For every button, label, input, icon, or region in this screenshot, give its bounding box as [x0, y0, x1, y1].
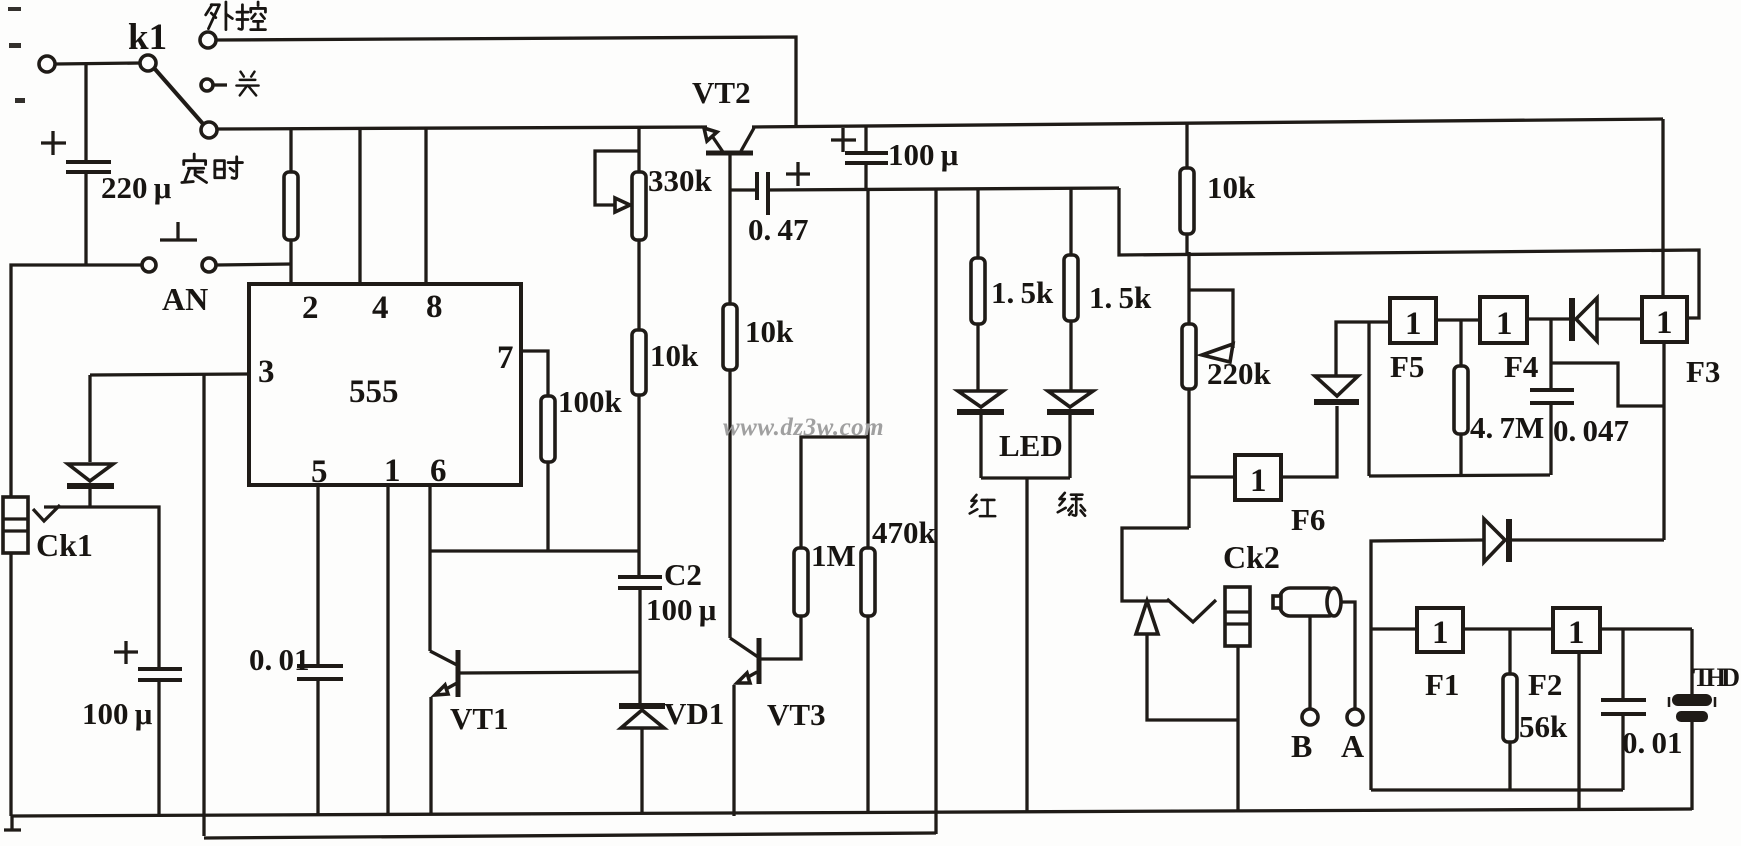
transistor VT2 emitter with arrow [708, 130, 723, 152]
svg-text:C2: C2 [664, 557, 702, 592]
diode F4-F3 bar [1569, 298, 1575, 341]
resistor 56k body [1503, 674, 1517, 742]
wire 470k bottom to bus1 [866, 616, 869, 812]
svg-text:VD1: VD1 [664, 696, 724, 731]
wire: AN left to left rail [11, 265, 142, 497]
box F1 [1417, 608, 1463, 652]
svg-text:6: 6 [430, 453, 447, 489]
svg-text:8: 8 [426, 289, 443, 325]
transistor VT1 emitter with arrow [437, 683, 457, 694]
capacitor 100u (left) plus [114, 641, 138, 664]
capacitor 100u (top) [845, 151, 888, 155]
wire 470k vertical from rail [866, 189, 869, 548]
node: guan (off) terminal [201, 79, 213, 91]
transistor VT3 bar [757, 638, 762, 684]
svg-text:1: 1 [1405, 306, 1422, 342]
svg-text:1: 1 [1432, 615, 1449, 651]
wire pin2 [289, 240, 292, 284]
resistor 10k (right) top wire [1185, 122, 1188, 168]
resistor 100k body [541, 396, 555, 462]
svg-text:100 μ: 100 μ [888, 137, 959, 172]
svg-text:1: 1 [1568, 615, 1585, 651]
wire bottom bracket (4.7M / 0.047) [1369, 475, 1550, 476]
wire pin3 to left diode [90, 374, 249, 375]
plus sign 0.47 [786, 162, 810, 186]
wire diode top to F5 line [1336, 322, 1390, 376]
svg-text:LED: LED [999, 428, 1063, 463]
wire: VT2 collector rail to F3 [752, 119, 1663, 127]
transistor VT3 collector diagonal [730, 638, 758, 657]
label dingshi (timing) [182, 154, 207, 183]
wire junction down to bottom bracket [1367, 322, 1370, 476]
resistor at pin2 (timing) top wire [289, 128, 292, 172]
resistor 10k (VT2 base) body [723, 304, 737, 370]
wire to bottom diode [1511, 538, 1664, 541]
node B terminal [1302, 709, 1318, 725]
wire C2 to VD1 [638, 588, 641, 704]
resistor 1.5k (green) top jog [1069, 188, 1072, 255]
wire VT2 base down [728, 153, 731, 304]
svg-text:1: 1 [384, 453, 401, 489]
wire pin7 stub [521, 351, 548, 396]
svg-text:5: 5 [311, 454, 328, 490]
wire 100k bottom [546, 462, 549, 551]
potentiometer 330k body [632, 172, 646, 240]
svg-text:VT3: VT3 [767, 697, 826, 732]
capacitor 0.47 [755, 172, 759, 200]
wire F1 top [1371, 627, 1417, 630]
capacitor 100u (top) plus [831, 128, 856, 152]
resistor 10k (right) body [1180, 168, 1194, 234]
svg-text:F1: F1 [1425, 667, 1459, 702]
diode VD (points down) [68, 464, 113, 481]
wire: AN right to pin2 resistor [216, 264, 292, 265]
wire: long vertical to bus2 [934, 189, 937, 834]
wire F4 to diode [1527, 317, 1571, 320]
jack Ck2 body [1225, 587, 1250, 646]
pushbutton AN symbol [160, 222, 197, 240]
capacitor 0.01 at pin5 [297, 664, 343, 668]
svg-text:0. 047: 0. 047 [1553, 413, 1629, 448]
wire: pin6 node to C2 top node [430, 549, 640, 552]
capacitor 100u (left) [138, 667, 182, 671]
svg-text:Ck1: Ck1 [36, 527, 93, 563]
diode above F6 (points down) [1315, 376, 1358, 396]
switch k1 pivot [140, 55, 156, 71]
svg-text:470k: 470k [872, 515, 937, 550]
wire 4.7M bottom [1459, 434, 1462, 476]
node A terminal [1347, 709, 1363, 725]
capacitor 0.01 (right) top wire [1621, 629, 1624, 700]
svg-text:B: B [1291, 728, 1312, 764]
transistor VT2 collector diagonal [741, 128, 754, 151]
wire: main rail from switch to VT2 emitter [217, 127, 707, 129]
transistor VT2 bar [706, 151, 753, 156]
switch k1: left terminal [39, 56, 55, 72]
capacitor 0.01 (right) [1601, 698, 1646, 702]
box F2 [1553, 608, 1600, 652]
resistor 1.5k (red) body [971, 258, 985, 324]
jack Ck1 body [3, 497, 28, 553]
wire LED bracket [981, 476, 1070, 479]
wire B lead [1308, 616, 1311, 709]
svg-text:1: 1 [1250, 463, 1267, 499]
svg-text:220k: 220k [1207, 356, 1272, 391]
wire plug down [1147, 634, 1238, 720]
capacitor 0.47 left lead [730, 188, 757, 191]
svg-text:100k: 100k [558, 384, 623, 419]
potentiometer 330k top wire [637, 127, 640, 172]
wire F5-F4 [1436, 318, 1480, 321]
wire: pin3 junction down to lower bus2 [202, 374, 205, 836]
svg-text:A: A [1341, 728, 1364, 764]
box F4 [1480, 297, 1527, 343]
wire diode to F1 block left edge [1371, 540, 1484, 790]
wire 10k bottom to rail255 [1185, 234, 1188, 253]
resistor 4.7M top wire [1459, 320, 1462, 366]
resistor 470k body [861, 548, 875, 616]
diode VD at pin3 top lead [88, 375, 91, 462]
transistor VT1 base wire [460, 672, 641, 673]
svg-text:56k: 56k [1519, 709, 1568, 744]
wire 220k bottom to F6 line [1187, 389, 1190, 528]
plug arrow (points up) [1136, 601, 1158, 634]
wire F3 bottom down [1662, 342, 1665, 540]
wire: Ck1 down to bus1 [9, 553, 12, 816]
jack Ck2 spring contact [1167, 599, 1216, 622]
svg-text:330k: 330k [648, 163, 713, 198]
buzzer THD [1672, 694, 1712, 706]
wire: junction down to 220u [84, 64, 87, 161]
wire F6 right to diode [1281, 406, 1337, 477]
potentiometer 220k body [1182, 324, 1196, 389]
wire diode to F3 [1597, 317, 1642, 320]
LED green (points down) [1048, 391, 1093, 407]
svg-text:4: 4 [372, 290, 389, 326]
capacitor 0.047 [1530, 388, 1574, 392]
transistor VT1 collector diagonal [430, 651, 457, 665]
wire pin8 [424, 128, 427, 284]
svg-text:555: 555 [349, 374, 399, 410]
wire to green LED [1069, 321, 1072, 390]
svg-text:10k: 10k [650, 338, 699, 373]
svg-text:2: 2 [302, 290, 319, 326]
pushbutton AN left contact [142, 258, 156, 272]
label waikong (external control) [206, 2, 233, 30]
wire pin4 [358, 128, 361, 284]
resistor 1.5k (red) top wire [976, 189, 979, 258]
wire 100u top [864, 125, 867, 153]
svg-text:0. 01: 0. 01 [1622, 725, 1682, 760]
wire rail jog down to y255 rail [1119, 188, 1699, 318]
diode (F1 feed, points right) [1484, 519, 1505, 562]
svg-text:10k: 10k [1207, 170, 1256, 205]
switch k1 lower contact [201, 122, 217, 138]
svg-text:1: 1 [1656, 305, 1673, 341]
wire 10k to VT3 collector [728, 370, 731, 638]
diode VD1 (points up) [621, 710, 664, 728]
bus1 ground rail [11, 809, 1692, 816]
wire F3 top from rail [1661, 119, 1664, 297]
resistor 4.7M body [1454, 366, 1468, 434]
wire Ck2 tip path [1122, 528, 1189, 601]
svg-text:0. 47: 0. 47 [748, 212, 808, 247]
wire pin5 [316, 485, 319, 666]
wire 1M top [801, 437, 868, 548]
diode F4-F3 (points left) [1576, 298, 1597, 341]
svg-text:100 μ: 100 μ [82, 696, 153, 731]
resistor 10k (under 330k) body [632, 330, 646, 395]
svg-text:www.dz3w.com: www.dz3w.com [723, 414, 884, 441]
wire 56k bottom [1508, 742, 1511, 790]
svg-text:0. 01: 0. 01 [249, 642, 309, 677]
box F6 [1235, 455, 1281, 500]
svg-text:4. 7M: 4. 7M [1470, 410, 1544, 445]
LED red (points down) [958, 391, 1003, 407]
wire F2 bottom pin to bus1 [1577, 652, 1580, 811]
svg-text:F6: F6 [1291, 502, 1325, 537]
wire THD top [1690, 629, 1693, 696]
transistor VT3 emitter with arrow [739, 672, 757, 682]
box F3 [1642, 297, 1687, 342]
plug body (cylinder) [1280, 588, 1338, 616]
bus1 left end tick [4, 816, 21, 830]
wire: diode to 100u cap [33, 505, 60, 521]
svg-text:1: 1 [1496, 306, 1513, 342]
node: waikong terminal circle [200, 32, 216, 48]
svg-text:1. 5k: 1. 5k [991, 275, 1054, 310]
wire: rail y189 [768, 188, 1119, 190]
resistor 56k top wire [1508, 629, 1511, 674]
potentiometer 330k wiper bracket [595, 151, 639, 205]
switch k1 blade [154, 68, 204, 125]
op-amp/timer U1 555 box [249, 284, 521, 485]
capacitor C2 [618, 575, 662, 579]
wire to red LED [976, 324, 979, 390]
wire 330k to 10k [637, 240, 640, 330]
wire pin1 to bus1 [386, 485, 389, 814]
wire: top waikong line to VT2 collector [216, 37, 796, 126]
svg-text:10k: 10k [745, 314, 794, 349]
bus2 lower rail [204, 833, 936, 838]
capacitor 220u [66, 160, 111, 164]
resistor 1M body [794, 548, 808, 616]
svg-text:THD: THD [1693, 663, 1740, 692]
svg-text:F2: F2 [1528, 667, 1562, 702]
wire pin6 down [428, 485, 431, 651]
resistor at pin2 body [284, 172, 298, 240]
svg-text:VT2: VT2 [692, 75, 751, 110]
pushbutton AN right contact [202, 258, 216, 272]
label guan (off) [236, 72, 258, 96]
box F5 [1390, 298, 1436, 343]
svg-text:VT1: VT1 [450, 701, 509, 736]
potentiometer 220k top wire [1187, 252, 1190, 324]
diode VD1 bar [619, 703, 665, 709]
wire THD bottom to bus1 [1690, 722, 1693, 810]
svg-text:F4: F4 [1504, 349, 1538, 384]
label lv (green) [1058, 493, 1085, 516]
wire F6 left [1189, 475, 1235, 478]
diode above F6 bar [1314, 399, 1359, 405]
resistor 1.5k (green) body [1064, 255, 1078, 321]
potentiometer 220k wiper bracket [1189, 290, 1233, 348]
diode (F1 feed) bar [1506, 519, 1512, 562]
wire block bottom line [1371, 788, 1623, 791]
label hong (red) [970, 495, 996, 516]
wire step from 0.047 node to F3 bottom wire [1551, 363, 1665, 406]
svg-text:1M: 1M [811, 538, 856, 573]
transistor VT1 bar [456, 650, 461, 697]
wire F2 right [1600, 627, 1692, 630]
svg-text:1. 5k: 1. 5k [1089, 280, 1152, 315]
svg-text:Ck2: Ck2 [1223, 539, 1280, 575]
svg-text:k1: k1 [128, 17, 167, 58]
svg-text:AN: AN [162, 281, 208, 317]
svg-text:100 μ: 100 μ [646, 592, 717, 627]
wire LED common down to bus1 [1025, 478, 1028, 812]
svg-text:220 μ: 220 μ [101, 170, 172, 205]
svg-text:F5: F5 [1390, 349, 1424, 384]
wire F1-F2 [1463, 627, 1553, 630]
svg-text:F3: F3 [1686, 354, 1720, 389]
wire jack bottom to bus1 [1236, 646, 1239, 810]
wire [55, 63, 141, 64]
wire A lead [1340, 602, 1355, 709]
scan specks on left edge [8, 7, 25, 103]
capacitor 220u plus sign [41, 131, 66, 155]
transistor VT3 base wire to 1M [761, 616, 801, 659]
capacitor 0.047 top wire [1549, 319, 1552, 390]
svg-text:7: 7 [497, 340, 514, 376]
wire 10k to C2 [637, 395, 640, 577]
svg-text:3: 3 [258, 354, 275, 390]
